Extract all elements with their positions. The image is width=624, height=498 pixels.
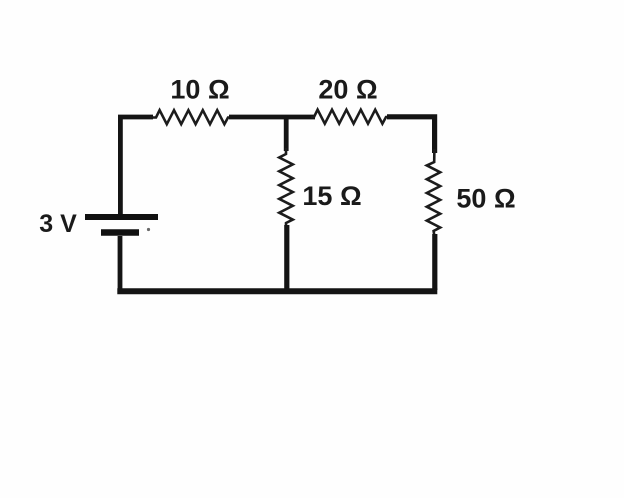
stray ink dot artifact bbox=[147, 228, 150, 231]
wire left vertical lower (battery to bottom rail) bbox=[118, 236, 123, 291]
svg-text:50 Ω: 50 Ω bbox=[456, 184, 515, 214]
svg-text:15 Ω: 15 Ω bbox=[302, 181, 361, 211]
wire top-middle segment bbox=[229, 115, 315, 120]
wire bottom bbox=[117, 288, 437, 294]
resistor R3 15Ω zigzag (vertical) bbox=[279, 148, 293, 227]
wire top-left segment bbox=[120, 117, 153, 214]
wire top-right segment bbox=[387, 117, 435, 153]
battery V1 negative plate (short) bbox=[101, 229, 139, 236]
wire right vertical lower bbox=[432, 234, 437, 290]
battery V1 positive plate (long) bbox=[85, 214, 158, 220]
svg-text:3 V: 3 V bbox=[39, 210, 77, 238]
svg-text:10 Ω: 10 Ω bbox=[170, 75, 229, 105]
resistor R2 20Ω zigzag bbox=[311, 110, 389, 124]
node middle-top junction / wire middle vertical upper bbox=[284, 116, 289, 152]
wire middle vertical lower bbox=[284, 225, 289, 292]
svg-text:20 Ω: 20 Ω bbox=[318, 75, 377, 105]
resistor R4 50Ω zigzag (vertical) bbox=[427, 149, 440, 236]
resistor R1 10Ω zigzag bbox=[150, 110, 231, 124]
